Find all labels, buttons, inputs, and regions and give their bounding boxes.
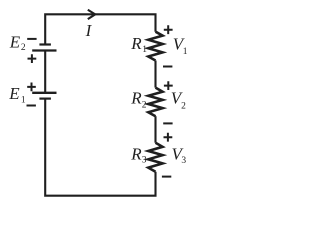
svg-text:R: R <box>130 145 142 164</box>
wire between R2 and R3 <box>154 116 156 143</box>
plus sign at R3 <box>164 133 173 142</box>
battery E2 negative plate (short) <box>39 43 51 45</box>
svg-text:I: I <box>85 21 93 40</box>
resistor R1 zigzag <box>148 32 162 61</box>
plus sign at R1 <box>164 25 173 34</box>
resistor R2 zigzag <box>148 88 162 117</box>
wire top loop (left riser, top rail, right riser) <box>45 14 155 44</box>
svg-text:E: E <box>8 84 20 103</box>
minus sign at E2 <box>27 38 36 40</box>
svg-text:R: R <box>130 89 142 108</box>
plus sign at E1 <box>27 83 36 92</box>
svg-text:3: 3 <box>142 156 147 166</box>
current arrow head <box>88 10 95 19</box>
svg-text:1: 1 <box>183 47 188 57</box>
wire between R1 and R2 <box>154 61 156 88</box>
plus sign at R2 <box>164 81 173 90</box>
battery E1 negative plate (short) <box>39 97 51 99</box>
svg-text:1: 1 <box>21 96 26 106</box>
svg-text:R: R <box>130 34 142 53</box>
svg-text:E: E <box>9 33 21 52</box>
svg-text:2: 2 <box>142 100 147 110</box>
svg-text:2: 2 <box>21 43 26 53</box>
svg-text:1: 1 <box>142 45 147 55</box>
minus sign at E1 <box>27 105 36 107</box>
svg-text:2: 2 <box>181 102 186 112</box>
minus sign at R3 <box>162 176 171 178</box>
minus sign at R2 <box>163 122 172 124</box>
resistor R3 zigzag <box>148 143 162 172</box>
battery E2 positive plate (long) <box>32 49 56 51</box>
wire bottom loop (below E1, bottom rail, below R3) <box>45 99 155 196</box>
battery E1 positive plate (long) <box>32 92 56 94</box>
wire between E2 and E1 <box>44 51 46 93</box>
minus sign at R1 <box>163 66 172 68</box>
svg-text:3: 3 <box>181 156 186 166</box>
plus sign at E2 <box>28 54 37 63</box>
